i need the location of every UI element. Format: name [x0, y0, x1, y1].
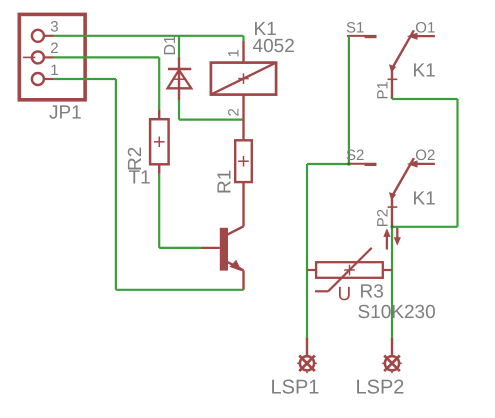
surge arrow down [394, 228, 401, 246]
wire pin1 long vertical [115, 79, 117, 290]
svg-text:S10K230: S10K230 [358, 302, 436, 323]
wire left rail vertical [306, 164, 308, 341]
connector JP1 [19, 14, 85, 99]
wire pin3 rail [54, 35, 244, 37]
svg-text:D1: D1 [162, 35, 179, 56]
solder pad LSP2 [382, 338, 402, 373]
svg-text:R1: R1 [215, 170, 236, 194]
wire bottom emitter return [116, 289, 244, 291]
wire S1 down to S2 [348, 36, 350, 164]
svg-text:O2: O2 [415, 147, 435, 164]
junction P2 [391, 225, 394, 228]
relay contact K1 first (S1 O1 P1) [347, 30, 435, 99]
svg-text:1: 1 [226, 49, 243, 57]
svg-text:S2: S2 [346, 147, 364, 164]
svg-text:LSP2: LSP2 [356, 377, 405, 399]
svg-text:P1: P1 [375, 81, 392, 99]
wire P1 to right rail [392, 98, 458, 100]
solder pad LSP1 [297, 338, 317, 373]
surge arrow up [383, 228, 390, 249]
varistor R3 [307, 248, 392, 291]
relay coil K1 [211, 41, 276, 140]
wire base horizontal [159, 247, 202, 249]
wire R2 bottom down [158, 174, 160, 248]
svg-text:U: U [338, 284, 352, 305]
svg-text:JP1: JP1 [49, 103, 82, 124]
wire D1 anode down [178, 100, 180, 120]
wire right rail down to LSP2 [391, 227, 393, 341]
resistor R1 [235, 140, 252, 226]
svg-text:LSP1: LSP1 [271, 377, 320, 399]
svg-text:2: 2 [226, 108, 243, 116]
wire S rail horizontal [307, 163, 349, 165]
transistor T1 [201, 226, 243, 289]
svg-text:O1: O1 [415, 19, 435, 36]
svg-text:R3: R3 [360, 281, 384, 302]
svg-text:K1: K1 [413, 61, 436, 82]
wire D1 cathode to rail [178, 36, 180, 59]
svg-text:3: 3 [50, 19, 58, 36]
diode D1 [168, 58, 192, 101]
wire D1 anode to coil pin2 [179, 118, 244, 120]
svg-text:K1: K1 [413, 188, 436, 209]
wire pin2 down to R2 [158, 57, 160, 110]
svg-text:4052: 4052 [253, 36, 295, 57]
junction S2 [348, 163, 351, 166]
relay contact K1 second (S2 O2 P2) [347, 158, 435, 227]
wire coil pin1 stub [242, 36, 244, 42]
wire pin2 horizontal [54, 56, 160, 58]
resistor R2 [150, 110, 169, 174]
svg-text:T1: T1 [129, 168, 151, 189]
wire right rail vertical [456, 99, 458, 227]
wire pin1 horizontal [54, 78, 116, 80]
svg-text:2: 2 [50, 40, 58, 57]
wire right rail to P2 [392, 226, 458, 228]
svg-text:1: 1 [50, 62, 58, 79]
svg-text:S1: S1 [346, 19, 364, 36]
svg-text:P2: P2 [375, 209, 392, 227]
